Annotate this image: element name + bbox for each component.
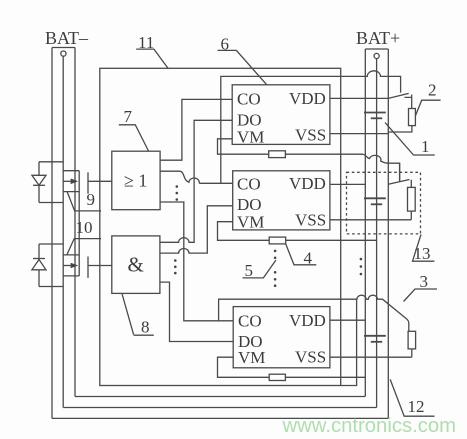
svg-text:DO: DO <box>237 195 262 214</box>
svg-text:8: 8 <box>141 318 150 337</box>
resistor R4 <box>269 237 286 244</box>
diode D2 <box>32 244 63 287</box>
svg-text:VSS: VSS <box>295 211 326 230</box>
wire: R2 bottom to bus <box>388 126 412 132</box>
svg-text:CO: CO <box>237 175 261 194</box>
resistor R3 <box>408 331 416 349</box>
wire: bottom return wires <box>52 397 388 419</box>
callout 4 <box>286 244 317 268</box>
svg-text:VSS: VSS <box>295 126 326 145</box>
battery cell 2 <box>364 198 386 204</box>
svg-text:2: 2 <box>428 81 437 100</box>
wire: OR input 2 to CO2 (jog + hop over DO1 line) <box>160 171 233 183</box>
wire: VSS1 to bus <box>330 133 388 135</box>
svg-text:9: 9 <box>87 190 96 209</box>
svg-text:VM: VM <box>237 128 264 147</box>
wire: DO2 to AND input 2 (hop over CO3 line) <box>160 206 233 253</box>
wire: R6 top diagonal from bus <box>388 163 411 187</box>
IC3 box <box>233 307 330 368</box>
callout 13 <box>413 235 435 264</box>
diode D1 <box>32 162 63 203</box>
svg-text:CO: CO <box>238 312 262 331</box>
resistor R2 <box>409 109 416 126</box>
callout 11 <box>136 33 168 68</box>
wire: VSS2 / R6 bottom <box>330 211 411 220</box>
wire: VDD3 to bus <box>330 319 365 321</box>
wire: R2 top link <box>405 95 412 109</box>
BAT- terminal <box>52 48 75 419</box>
wire: VDD1 to bus <box>330 93 409 98</box>
wire: VM2 sense line + R4 <box>218 222 377 241</box>
wire: Q1 gate to OR <box>88 180 112 182</box>
wire: CO2 feed up and right to R2 (hop over cell line) <box>221 71 401 184</box>
main box 11 outline <box>100 68 357 385</box>
svg-text:13: 13 <box>414 244 431 263</box>
callout 8 <box>122 294 154 336</box>
wire: DO1 to AND input 1 (hop over CO3 line) <box>160 120 232 242</box>
callout 6 <box>218 35 267 85</box>
BAT+ terminal <box>365 49 388 418</box>
svg-text:VM: VM <box>237 213 264 232</box>
svg-text:www.cntronics.com: www.cntronics.com <box>282 415 457 437</box>
svg-text:12: 12 <box>408 397 425 416</box>
resistor R1 <box>269 151 286 158</box>
wire: Q2 gate to AND <box>88 265 112 267</box>
wire: VSS3 / R3 bottom <box>330 349 412 357</box>
dashed module box 13 <box>347 172 421 234</box>
resistor R5 <box>269 374 285 380</box>
wire: VM3 sense line + R5 <box>218 357 366 377</box>
callout 1 <box>385 123 435 157</box>
svg-text:3: 3 <box>420 272 429 291</box>
ellipsis below IC2 <box>274 250 277 287</box>
MOSFET Q2 <box>63 255 88 278</box>
OR gate U7 <box>112 151 160 210</box>
wire: DO3 to AND input 3 <box>160 282 233 341</box>
callout 10 <box>67 218 101 255</box>
svg-text:&: & <box>128 253 144 277</box>
IC1 box <box>232 85 330 147</box>
svg-text:BAT–: BAT– <box>45 28 89 48</box>
callout 7 <box>119 107 149 151</box>
IC2 box <box>233 171 330 232</box>
ellipsis right of AND gate <box>174 259 177 274</box>
wire: CO1 to OR input 1 <box>160 99 232 160</box>
svg-text:VSS: VSS <box>295 348 326 367</box>
MOSFET Q1 <box>63 171 88 276</box>
svg-text:VM: VM <box>238 348 265 367</box>
svg-text:1: 1 <box>421 137 430 156</box>
svg-text:VDD: VDD <box>289 89 326 108</box>
callout 5 <box>243 260 276 280</box>
callout 9 <box>67 190 101 211</box>
svg-text:≥ 1: ≥ 1 <box>124 171 147 191</box>
AND gate U8 <box>112 236 160 294</box>
battery cell 3 <box>364 336 386 342</box>
svg-text:BAT+: BAT+ <box>356 28 400 48</box>
svg-text:VDD: VDD <box>289 174 326 193</box>
callout 2 <box>415 81 440 116</box>
battery cell 1 <box>364 113 386 119</box>
callout 12 <box>390 379 434 416</box>
svg-text:7: 7 <box>124 107 133 126</box>
wire: OR input 3 to CO3 <box>160 202 233 321</box>
resistor R6 in dashed module <box>408 187 416 211</box>
wire: VDD2 to bus <box>330 183 365 185</box>
svg-text:CO: CO <box>237 90 261 109</box>
svg-text:5: 5 <box>245 261 254 280</box>
wire: VM1 sense line + R1 <box>218 139 400 181</box>
ellipsis on left bus line <box>360 258 363 276</box>
wire: CO3 feed to R3 (wavy breaks over bus lines) <box>219 295 409 331</box>
ellipsis right of OR gate <box>176 185 179 201</box>
svg-text:10: 10 <box>76 218 93 237</box>
svg-text:VDD: VDD <box>289 311 326 330</box>
callout 3 <box>404 272 438 302</box>
